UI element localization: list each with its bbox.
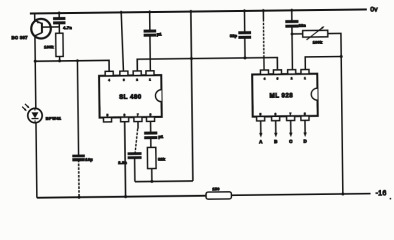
svg-text:6: 6	[124, 113, 126, 117]
wire feedback bottom node	[135, 180, 193, 183]
light arrow 1 into D1	[25, 104, 29, 108]
IC U2 top pin 1	[301, 70, 309, 74]
potentiometer P1 100k	[292, 33, 303, 35]
svg-text:100k: 100k	[44, 44, 54, 49]
wire Q1 base lead	[42, 26, 59, 28]
svg-text:4: 4	[108, 78, 110, 82]
svg-text:ML 928: ML 928	[270, 92, 294, 99]
svg-text:1: 1	[149, 78, 151, 82]
IC U1 top pin 3	[120, 71, 128, 75]
svg-text:SL 480: SL 480	[119, 93, 142, 100]
svg-text:2: 2	[136, 78, 138, 82]
svg-text:82p: 82p	[230, 33, 238, 38]
IC U1 top pin 1	[146, 71, 154, 75]
IC U1 top pin 2	[133, 71, 141, 75]
IC U2 top pin 2	[288, 70, 296, 74]
svg-text:8: 8	[150, 113, 152, 117]
wire branch junction to U2 pin 1	[305, 56, 341, 69]
capacitor C3 u1 to U1 pin 1	[149, 10, 151, 30]
output A arrow from U2	[260, 121, 262, 134]
svg-text:8: 8	[304, 112, 306, 116]
svg-text:2: 2	[291, 76, 293, 80]
stray mark after -16	[390, 198, 392, 200]
svg-text:2.2n: 2.2n	[118, 160, 127, 165]
output B arrow from U2	[275, 121, 277, 134]
node C4 to output wire	[243, 56, 246, 59]
svg-text:4: 4	[264, 77, 266, 81]
wire bottom negative rail left section	[37, 196, 206, 198]
capacitor C1 4.7n	[58, 12, 60, 19]
capacitor C6 2.2n	[137, 122, 139, 129]
IC U2 top pin 4	[260, 70, 268, 74]
svg-text:B: B	[274, 139, 277, 144]
svg-text:7: 7	[290, 112, 292, 116]
svg-text:μ1: μ1	[157, 31, 163, 36]
IC U1 bottom pin 8	[147, 117, 155, 121]
wire bottom rail right section to supply	[231, 194, 370, 196]
resistor R2 82k	[150, 138, 152, 148]
node R2 to feedback wire	[150, 180, 153, 183]
svg-text:82k: 82k	[158, 156, 166, 161]
svg-text:6: 6	[275, 112, 277, 116]
IC U1 bottom pin 5	[104, 117, 112, 121]
IC U2 bottom pin 5	[257, 116, 265, 120]
svg-text:0v: 0v	[370, 7, 378, 14]
light arrow 2 into D1	[22, 107, 26, 111]
svg-text:BC 307: BC 307	[12, 35, 29, 40]
node output wire crossing junction	[190, 57, 193, 60]
svg-text:BPW41: BPW41	[46, 115, 62, 120]
resistor R3 150	[206, 192, 231, 199]
capacitor C7 u1 on U1 pin 8	[150, 121, 152, 132]
wire P1 right terminal down to negative rail	[328, 33, 343, 194]
resistor R1 100k	[56, 33, 63, 56]
svg-text:22n: 22n	[299, 22, 307, 27]
wire 0V rail to U1 pin 3	[121, 11, 123, 71]
svg-text:3: 3	[277, 77, 279, 81]
svg-text:10μ: 10μ	[85, 157, 93, 162]
svg-text:1: 1	[304, 76, 306, 80]
output C arrow from U2	[290, 120, 292, 133]
IC U1 SL480 infrared preamplifier	[99, 75, 162, 117]
svg-text:3: 3	[123, 78, 125, 82]
IC U2 bottom pin 6	[272, 116, 280, 120]
IC U2 ML928 remote control receiver	[252, 74, 318, 117]
transistor Q1 BC307	[31, 19, 51, 39]
wire left node to SL480 pin 1	[35, 60, 109, 72]
IC U2 bottom pin 7	[287, 116, 295, 120]
IC U1 top pin 4	[105, 71, 113, 75]
svg-text:7: 7	[137, 113, 139, 117]
svg-text:4.7n: 4.7n	[63, 25, 72, 30]
output D arrow from U2	[304, 120, 306, 133]
wire U1 pin 2 output to U2 pin 3 input	[137, 58, 277, 71]
capacitor C5 22n	[291, 9, 293, 22]
wire 0V rail to U2 pin 4	[262, 9, 264, 19]
svg-text:5: 5	[107, 113, 109, 117]
svg-text:μ1: μ1	[158, 134, 164, 139]
wire 0V rail to feedback bottom node	[191, 10, 193, 181]
wire U1 pin 6 to bottom rail	[124, 122, 127, 198]
IC U1 bottom pin 6	[121, 117, 129, 121]
capacitor C2 10u decoupling	[77, 61, 78, 156]
svg-text:D: D	[303, 139, 306, 144]
photodiode D1 BPW41	[34, 36, 37, 108]
node resistor R1 to wire junction	[58, 59, 61, 62]
wire 0V top supply rail	[30, 9, 367, 13]
capacitor C4 82p	[243, 9, 245, 32]
svg-text:150: 150	[212, 186, 219, 191]
svg-text:5: 5	[260, 112, 262, 116]
svg-text:-16: -16	[376, 190, 387, 197]
IC U1 bottom pin 7	[134, 117, 142, 121]
IC U2 top pin 3	[273, 70, 281, 74]
svg-text:100k: 100k	[313, 39, 323, 44]
IC U2 bottom pin 8	[301, 116, 309, 120]
